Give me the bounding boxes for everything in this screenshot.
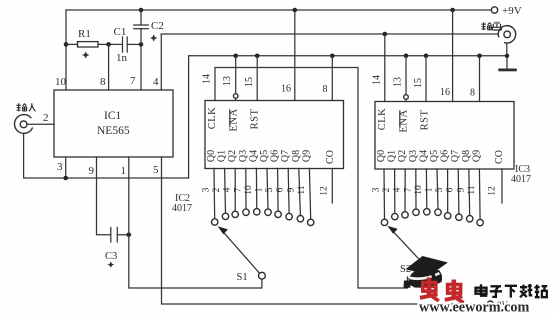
wire IC2 CO stub bbox=[331, 169, 333, 204]
resistor R1 bbox=[66, 43, 78, 45]
wire IC2 pin8 riser bbox=[331, 56, 333, 101]
svg-text:14: 14 bbox=[372, 75, 383, 85]
+9V terminal bbox=[491, 7, 497, 13]
svg-text:12: 12 bbox=[320, 186, 330, 196]
svg-text:13: 13 bbox=[222, 76, 233, 86]
label shuchu bbox=[481, 22, 501, 30]
svg-text:2: 2 bbox=[212, 187, 222, 192]
capacitor C1 bbox=[122, 37, 124, 52]
svg-text:R1: R1 bbox=[78, 28, 91, 40]
svg-text:Q1: Q1 bbox=[217, 150, 228, 162]
svg-text:1: 1 bbox=[425, 187, 435, 192]
bubble IC2 ENA bbox=[233, 94, 238, 99]
svg-text:2: 2 bbox=[382, 187, 392, 192]
counter IC2 4017 box bbox=[205, 101, 344, 169]
svg-text:16: 16 bbox=[281, 84, 291, 95]
svg-text:Q2: Q2 bbox=[227, 150, 238, 162]
star mark C3 bbox=[107, 262, 114, 268]
switch S1 bbox=[259, 272, 266, 279]
node gnd corner bbox=[505, 54, 509, 58]
svg-text:8: 8 bbox=[323, 84, 328, 95]
svg-text:5: 5 bbox=[265, 187, 275, 192]
wire pin10 riser bbox=[65, 10, 67, 90]
svg-text:+9V: +9V bbox=[502, 5, 522, 17]
svg-text:15: 15 bbox=[413, 78, 424, 88]
svg-text:CLK: CLK bbox=[377, 108, 388, 131]
wire pin1 stub to S1 bbox=[129, 157, 262, 288]
star mark C2 bbox=[150, 35, 158, 42]
svg-text:15: 15 bbox=[244, 77, 255, 87]
svg-text:9: 9 bbox=[286, 187, 296, 192]
svg-text:CO: CO bbox=[494, 150, 505, 164]
svg-text:Q7: Q7 bbox=[450, 150, 461, 162]
wire IC2 pin14 riser + CLK feed line bbox=[215, 68, 408, 289]
wire IC3 CO stub bbox=[501, 169, 503, 203]
wire IC3 pin8 riser bbox=[479, 56, 481, 102]
svg-text:RST: RST bbox=[420, 110, 431, 131]
ground rail bbox=[189, 56, 507, 69]
svg-text:10: 10 bbox=[55, 76, 67, 88]
node C1 / pin7 / C2 bbox=[139, 42, 144, 47]
op IC1 NE565 box bbox=[54, 90, 173, 157]
svg-text:11: 11 bbox=[467, 185, 477, 194]
star mark R1 bbox=[82, 52, 90, 59]
wire pin8 riser bbox=[108, 44, 110, 90]
node C3 / pin1 bbox=[127, 233, 132, 238]
wire VCO output line to jack bbox=[161, 33, 498, 35]
wire IC3 pin13 riser bbox=[405, 56, 407, 95]
node VCO line / IC3 pin14 bbox=[383, 32, 388, 37]
svg-text:C2: C2 bbox=[151, 20, 164, 32]
svg-text:6: 6 bbox=[276, 187, 286, 192]
node gnd/IC2 pin15 bbox=[255, 54, 260, 59]
svg-text:12: 12 bbox=[488, 186, 498, 196]
svg-text:8: 8 bbox=[100, 76, 106, 88]
svg-text:IC1: IC1 bbox=[104, 110, 122, 122]
svg-text:4: 4 bbox=[393, 187, 403, 192]
node gnd/IC2 pin8 bbox=[330, 54, 335, 59]
svg-text:4: 4 bbox=[223, 187, 233, 192]
label shuru bbox=[16, 103, 35, 111]
svg-text:Q2: Q2 bbox=[397, 150, 408, 162]
svg-text:7: 7 bbox=[403, 187, 413, 192]
svg-text:11: 11 bbox=[297, 185, 307, 194]
svg-text:NE565: NE565 bbox=[97, 125, 130, 137]
node gnd/IC3 pin15 bbox=[424, 54, 429, 59]
wire IC3 pin15 riser bbox=[425, 56, 427, 102]
svg-text:Q8: Q8 bbox=[461, 150, 472, 162]
node top rail / IC3 pin16 bbox=[450, 8, 455, 13]
watermark red chong #1 bbox=[420, 278, 439, 301]
svg-text:9: 9 bbox=[89, 165, 95, 177]
bottom-right terminal bbox=[487, 301, 493, 307]
watermark red chong #2 bbox=[445, 280, 464, 303]
wire IC3 pin16 riser bbox=[452, 10, 454, 102]
svg-text:Q3: Q3 bbox=[408, 150, 419, 162]
labels Q0-Q9 and CO IC3 bbox=[376, 150, 505, 164]
input jack (shuru) bbox=[14, 115, 32, 134]
svg-text:Q0: Q0 bbox=[206, 150, 217, 162]
svg-text:4017: 4017 bbox=[172, 203, 192, 214]
node top rail / C2 branch bbox=[139, 8, 144, 13]
ground symbol bbox=[498, 69, 517, 72]
node pin3 junction bbox=[63, 176, 68, 181]
svg-text:1n: 1n bbox=[116, 52, 128, 64]
node gnd/IC3 pin13 bbox=[404, 54, 409, 59]
svg-text:5: 5 bbox=[153, 164, 159, 176]
wire S2 pivot link (under watermark) bbox=[408, 278, 437, 280]
svg-text:10: 10 bbox=[244, 185, 254, 195]
svg-text:3: 3 bbox=[202, 187, 212, 192]
svg-text:Q4: Q4 bbox=[418, 150, 429, 162]
svg-text:Q1: Q1 bbox=[387, 150, 398, 162]
svg-text:C3: C3 bbox=[105, 251, 117, 262]
bubble IC3 ENA bbox=[404, 95, 409, 100]
svg-text:4: 4 bbox=[153, 76, 159, 88]
wire IC2 pin16 riser bbox=[294, 10, 296, 101]
svg-text:RST: RST bbox=[250, 109, 261, 130]
svg-text:7: 7 bbox=[233, 187, 243, 192]
svg-text:C1: C1 bbox=[114, 26, 127, 38]
top +9V rail bbox=[66, 9, 492, 11]
svg-text:2: 2 bbox=[43, 112, 49, 124]
capacitor C3 bbox=[110, 228, 112, 243]
wire input shell line bbox=[24, 134, 189, 178]
svg-text:Q3: Q3 bbox=[238, 150, 249, 162]
Q stubs and selector contacts IC2 bbox=[212, 169, 314, 226]
capacitor C2 bbox=[140, 10, 142, 25]
svg-text:Q6: Q6 bbox=[270, 150, 281, 162]
svg-text:Q4: Q4 bbox=[248, 150, 259, 162]
wire pin7 riser bbox=[140, 44, 142, 90]
svg-text:3: 3 bbox=[57, 161, 63, 173]
svg-text:Q0: Q0 bbox=[376, 150, 387, 162]
switch S2 bbox=[433, 274, 440, 281]
svg-text:Q7: Q7 bbox=[280, 150, 291, 162]
output jack (shuchu) bbox=[498, 26, 515, 43]
svg-text:5: 5 bbox=[435, 187, 445, 192]
wire IC2 pin15 riser bbox=[256, 56, 258, 101]
svg-text:www.eeworm.com: www.eeworm.com bbox=[419, 300, 529, 315]
svg-text:6: 6 bbox=[446, 187, 456, 192]
node gnd/IC2 pin13 bbox=[233, 54, 238, 59]
wire jack shell to ground bbox=[506, 43, 508, 56]
svg-text:10: 10 bbox=[414, 185, 424, 195]
svg-text:Q5: Q5 bbox=[259, 150, 270, 162]
wire pin5 stub to bottom rail bbox=[162, 157, 488, 304]
pin numbers below IC3 bbox=[372, 185, 498, 196]
svg-text:Q9: Q9 bbox=[471, 150, 482, 162]
watermark graduation cap bbox=[404, 256, 448, 288]
svg-text:1: 1 bbox=[121, 165, 127, 177]
svg-text:S1: S1 bbox=[237, 272, 248, 283]
svg-text:4017: 4017 bbox=[511, 174, 531, 185]
svg-text:Q8: Q8 bbox=[291, 150, 302, 162]
svg-text:16: 16 bbox=[440, 87, 450, 98]
node R1 left bbox=[64, 42, 69, 47]
svg-text:Q6: Q6 bbox=[440, 150, 451, 162]
wire pin9 stub to C3 bbox=[97, 157, 111, 235]
svg-text:CO: CO bbox=[325, 150, 336, 164]
wire IC2 pin13 riser bbox=[235, 56, 237, 94]
svg-text:9: 9 bbox=[456, 187, 466, 192]
node top rail / IC2 pin16 bbox=[293, 8, 298, 13]
pin numbers below IC2 bbox=[202, 185, 330, 196]
svg-text:Q9: Q9 bbox=[301, 150, 312, 162]
node gnd/IC3 pin8 bbox=[477, 54, 482, 59]
Q stubs and selector contacts IC3 bbox=[381, 169, 483, 226]
counter IC3 4017 box bbox=[375, 102, 514, 170]
svg-text:1: 1 bbox=[255, 187, 265, 192]
wire gnd left riser bbox=[188, 56, 190, 178]
wire pin3 stub bbox=[65, 157, 67, 178]
svg-text:CLK: CLK bbox=[207, 107, 218, 130]
wire IC3 pin14 riser bbox=[384, 34, 386, 102]
svg-text:Q5: Q5 bbox=[429, 150, 440, 162]
node R1 / pin8 bbox=[106, 42, 111, 47]
svg-text:14: 14 bbox=[202, 74, 213, 84]
labels Q0-Q9 and CO IC2 bbox=[206, 150, 336, 164]
wire input to pin2 bbox=[27, 123, 54, 125]
svg-text:8: 8 bbox=[470, 88, 475, 99]
svg-text:13: 13 bbox=[393, 77, 404, 87]
wire pin4 riser bbox=[160, 34, 162, 90]
watermark text dian zi xia zai zhan bbox=[476, 284, 548, 298]
svg-text:7: 7 bbox=[130, 75, 136, 87]
svg-text:3: 3 bbox=[372, 187, 382, 192]
